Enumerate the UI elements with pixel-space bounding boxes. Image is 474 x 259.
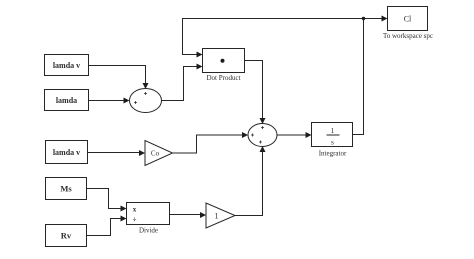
block Divide: [127, 203, 170, 225]
arrow into Divide in1: [121, 206, 127, 212]
sum S2 ellipse: [248, 124, 277, 147]
arrow into Dot Product in1: [197, 52, 203, 58]
arrow into Cl: [382, 16, 388, 22]
sum S1 ellipse: [130, 89, 162, 113]
block lamda (constant): [45, 90, 89, 111]
block Integrator 1/s: [312, 123, 353, 147]
block lamda v (constant 1): [45, 55, 89, 76]
arrow into sum S1 top: [143, 83, 149, 89]
wire gain Co to sum S2 left: [173, 135, 244, 153]
wire Divide out to gain 1: [170, 214, 202, 216]
fraction bar 1/s: [327, 134, 340, 136]
gain Co triangle: [145, 141, 173, 166]
svg-text:1: 1: [215, 212, 219, 221]
arrow into sum S2 bottom: [260, 146, 266, 152]
svg-text:÷: ÷: [133, 216, 137, 224]
wire Rv to Divide in2: [87, 219, 123, 236]
block Cl To workspace: [388, 7, 428, 31]
arrow into Divide in2: [121, 216, 127, 222]
gain 1 triangle: [206, 203, 235, 228]
dot of Dot Product: [221, 59, 225, 63]
plus S2 bottom: [259, 141, 262, 144]
sum sign marks: [134, 92, 264, 144]
block Ms (constant): [46, 178, 87, 200]
svg-text:s: s: [331, 138, 334, 147]
plus S2 left: [251, 134, 254, 137]
wire top line to Dot Product in1: [183, 19, 364, 55]
block Rv (constant): [46, 225, 87, 247]
wire gain 1 out to sum S2 bottom: [235, 151, 263, 216]
wire sum S2 out to Integrator: [277, 134, 307, 136]
wire Dot Product out to sum S2 top: [245, 61, 263, 120]
plus S2 top: [261, 126, 264, 129]
svg-text:x: x: [133, 206, 137, 214]
arrow into Dot Product in2: [197, 64, 203, 70]
wire Ms to Divide in1: [87, 189, 123, 209]
arrow into gain Co: [139, 150, 145, 156]
plus S1 left: [134, 101, 137, 104]
block lamda v (constant 2): [46, 141, 88, 164]
svg-text:lamda: lamda: [56, 96, 77, 105]
junction dot top line: [362, 17, 365, 20]
wire sum S1 out to Dot Product in2: [162, 67, 198, 101]
wire top line to Cl: [364, 18, 384, 20]
arrow into sum S2 left: [242, 132, 248, 138]
wire lamda v to sum S1 top: [89, 66, 146, 85]
svg-text:Co: Co: [151, 150, 160, 158]
arrow into sum S1 left: [124, 98, 130, 104]
svg-text:lamda v: lamda v: [53, 148, 80, 157]
wire lamda to sum S1 left: [89, 100, 125, 102]
svg-text:Rv: Rv: [61, 231, 72, 241]
svg-text:To workspace spc: To workspace spc: [383, 32, 433, 40]
svg-text:Cl: Cl: [404, 15, 412, 24]
wire Integrator out riser: [353, 19, 364, 135]
wire lamda v to gain Co: [88, 152, 141, 154]
svg-text:lamda v: lamda v: [53, 61, 80, 70]
arrow into sum S2 top: [260, 118, 266, 124]
svg-text:Dot Product: Dot Product: [206, 74, 240, 82]
svg-text:Divide: Divide: [139, 227, 158, 235]
arrow into Integrator: [306, 132, 312, 138]
svg-text:Integrator: Integrator: [319, 150, 347, 158]
svg-text:Ms: Ms: [60, 184, 72, 194]
plus S1 top: [144, 92, 147, 95]
arrow into gain 1: [200, 212, 206, 218]
block Dot Product: [203, 49, 245, 73]
svg-text:1: 1: [331, 126, 335, 135]
